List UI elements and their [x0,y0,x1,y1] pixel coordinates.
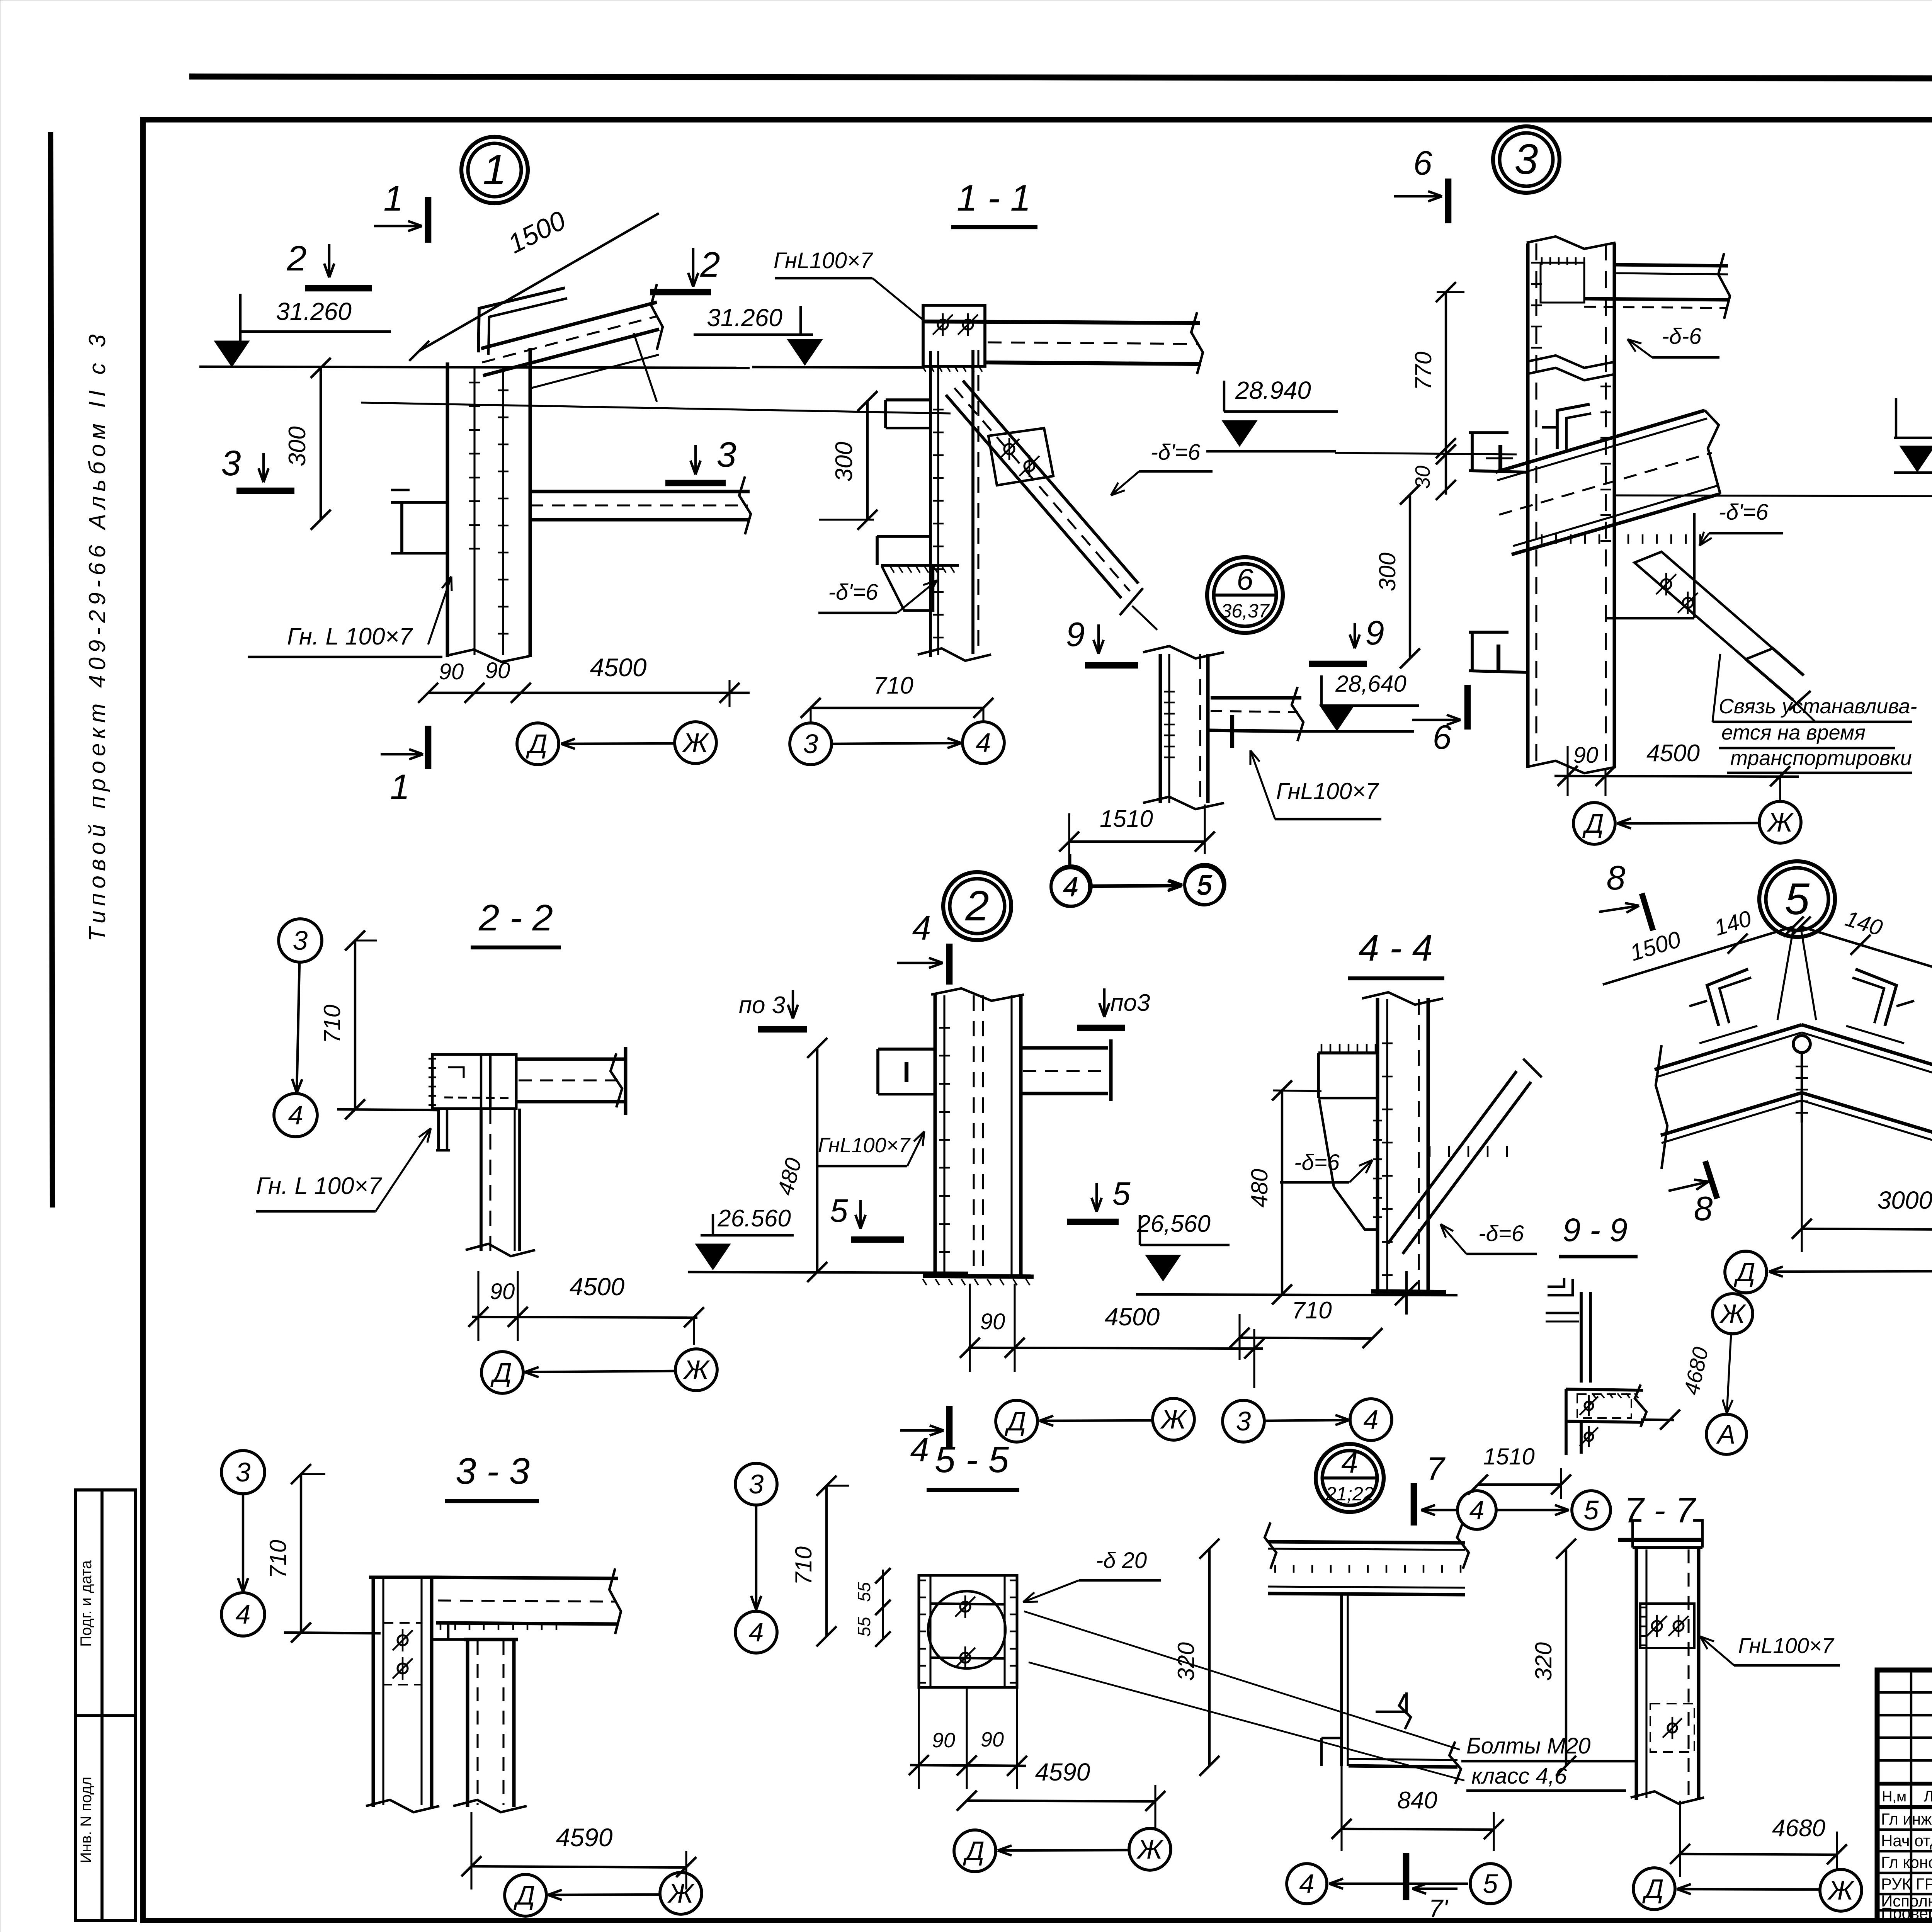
svg-text:Д: Д [1004,1406,1026,1436]
svg-text:9: 9 [1066,615,1085,653]
axis arrow bottom uzel 4 [1329,1883,1468,1885]
cross beam right uzel 1 [530,490,750,493]
svg-text:Д: Д [513,1880,535,1910]
clip right of web uzel 4 [1376,1692,1406,1712]
svg-text:4: 4 [749,1617,764,1647]
svg-text:Гн. L 100×7: Гн. L 100×7 [287,623,413,650]
column uzel 3 [1526,243,1530,768]
column uzel 2 [934,994,937,1276]
svg-text:Ж: Ж [1767,807,1794,837]
bracket left uzel 2 [878,1048,935,1051]
diagonal brace view 1-1 [946,395,1121,598]
svg-text:Ж: Ж [1719,1299,1747,1329]
svg-text:8: 8 [1607,859,1626,897]
svg-text:3: 3 [236,1457,251,1487]
corner bracket uzel 4 [1321,1738,1342,1766]
structure view 9-9 [1548,1278,1564,1287]
axis 5 above uzel 2 [1185,864,1225,905]
bottom dim 90 4500 uzel 2 [968,1348,1263,1349]
svg-text:4590: 4590 [1035,1758,1090,1786]
top beam view 1-1 [924,321,1200,323]
axis Ж uzel 2 [1153,1398,1194,1440]
axis arrow view 3-3 [548,1895,659,1895]
reference line view 3-3 [284,1633,381,1633]
node circle 3 [1493,126,1560,193]
svg-text:55: 55 [854,1582,874,1602]
svg-text:Проверил: Проверил [1881,1904,1932,1922]
svg-text:Типовой проект 409-29-: Типовой проект 409-29-66 Альбом II с 3 [84,330,110,941]
svg-text:по 3: по 3 [739,992,785,1019]
bracket left view 4-4 [1318,1051,1378,1054]
axis arrow uzel 5 [1769,1271,1932,1272]
svg-text:30: 30 [1411,466,1434,489]
svg-text:5: 5 [1584,1495,1599,1525]
dims 90 90 view 5-5 [910,1765,1026,1766]
axis arrow view 5-5 [755,1506,757,1610]
svg-text:31.260: 31.260 [276,298,352,325]
svg-text:300: 300 [831,442,857,481]
svg-text:Ж: Ж [1160,1404,1187,1434]
lower channel bracket left uzel 3 [1469,631,1509,634]
axis Д view 3-3 [505,1874,546,1916]
svg-text:21;22: 21;22 [1325,1483,1374,1505]
svg-text:1: 1 [483,146,506,194]
right column view 3-3 [466,1639,469,1807]
axis Ж view 3-3 [660,1872,702,1914]
svg-text:ГнL100×7: ГнL100×7 [818,1134,911,1157]
svg-text:Д: Д [1733,1257,1755,1287]
axis arrow uzel 1 [561,743,674,744]
axis Д view 5-5 [954,1830,996,1872]
level line uzel 1 [199,367,750,368]
svg-text:2 - 2: 2 - 2 [478,897,553,939]
column view 4-4 [1376,998,1379,1294]
dim 4590 view 3-3 [471,1866,687,1867]
svg-text:55: 55 [854,1617,874,1637]
dim 300 uzel 3 [1409,495,1411,658]
svg-text:4: 4 [236,1599,251,1629]
axis 4 mini detail [1051,868,1090,906]
svg-text:710: 710 [319,1005,345,1043]
bent plate top of column uzel 1 [478,288,565,352]
svg-text:Ж: Ж [667,1878,695,1908]
slanted dims uzel 5 right [1801,927,1932,985]
svg-text:Подг. и дата: Подг. и дата [78,1560,95,1646]
beam right uzel 2 [1021,1046,1108,1050]
axis 4 view 3-3 [221,1593,265,1636]
axis Ж view 7-7 [1820,1869,1862,1911]
svg-text:710: 710 [791,1546,816,1585]
axis arrow view 5-5 [998,1850,1128,1850]
dim 480 view 4-4 [1281,1090,1283,1294]
column bottom break uzel 1 [446,650,531,662]
svg-text:Ж: Ж [682,728,709,758]
svg-text:РУК ГР: РУК ГР [1881,1875,1932,1893]
top fittings view 7-7 [1633,1520,1641,1548]
svg-text:4: 4 [1299,1869,1315,1899]
svg-text:Н,м: Н,м [1882,1789,1906,1805]
svg-text:90: 90 [981,1728,1004,1751]
lower plate view 7-7 [1650,1704,1694,1752]
svg-text:Д: Д [1582,808,1604,838]
svg-text:9: 9 [1366,614,1384,652]
dim 1500 slanted [419,213,659,351]
top beam right uzel 3 [1614,265,1728,266]
svg-text:Гл инж пр: Гл инж пр [1881,1810,1932,1828]
gusset plate uzel 3 [1693,513,1696,618]
section mark 8 bottom uzel 5 [1705,1161,1717,1199]
axis 5 top uzel 4 [1572,1491,1611,1529]
node circle 6 / 36,37 [1207,557,1283,633]
column below view 2-2 [480,1109,483,1251]
svg-text:2: 2 [286,239,306,278]
node circle 5 [1759,861,1835,937]
svg-text:1: 1 [390,767,410,807]
mini detail 6 beam [1211,696,1301,700]
dims 55 55 view 5-5 [882,1570,884,1640]
section mark 6 bottom right of mini detail [1412,719,1461,721]
svg-text:4: 4 [976,728,991,758]
lower bracket view 1-1 [877,535,930,538]
svg-text:90: 90 [485,658,510,683]
svg-text:6: 6 [1236,562,1253,596]
svg-text:3: 3 [749,1469,764,1499]
axis 4 view 1-1 [963,722,1004,764]
beam under flange uzel 4 [1268,1587,1465,1588]
axis arrow 4-5 above uzel 2 [1092,885,1182,886]
bottom dim 710 view 4-4 [1240,1338,1372,1338]
section mark 1 top [425,197,432,243]
bottom dim 90 4500 uzel 3 [1554,776,1799,777]
axis arrow 3-4 view 1-1 [833,743,961,744]
section mark 1 bottom [425,726,432,769]
svg-text:480: 480 [1247,1169,1272,1207]
svg-text:3: 3 [803,729,818,759]
svg-text:8: 8 [1694,1189,1713,1228]
svg-text:4: 4 [1341,1445,1358,1479]
svg-text:Д: Д [526,729,547,759]
svg-text:840: 840 [1397,1787,1437,1814]
axis arrow 3 to 4 view 2-2 [297,963,299,1093]
svg-text:5: 5 [1112,1175,1131,1212]
svg-text:-δ=6: -δ=6 [1478,1221,1524,1246]
svg-text:90: 90 [439,659,464,684]
dim 320 left uzel 4 [1208,1549,1211,1766]
svg-text:транспортировки: транспортировки [1730,747,1912,770]
svg-text:7 - 7: 7 - 7 [1624,1491,1696,1530]
dim 710 view 3-3 [300,1474,302,1633]
axis Ж uzel 1 [675,722,716,764]
svg-text:ГнL100×7: ГнL100×7 [1738,1633,1834,1658]
svg-text:ГнL100×7: ГнL100×7 [1276,778,1380,804]
left stamp table [76,1490,135,1920]
svg-text:90: 90 [1573,743,1599,768]
bottom dim 90 4500 view 2-2 [472,1317,697,1318]
long thin line right uzel 3 [1614,495,1932,497]
svg-text:по3: по3 [1110,990,1150,1016]
left margin thick line [51,132,53,1207]
diagonal brace with bolts uzel 3 [1634,552,1773,659]
axis arrow 4-5 mini detail [1090,886,1182,887]
svg-text:4: 4 [1064,871,1079,901]
axis Ж uzel 3 [1759,801,1801,843]
axis 3 view 2-2 [279,919,322,962]
dim 300 view 1-1 [866,401,869,520]
svg-text:26.560: 26.560 [717,1205,791,1232]
axis 3 view 3-3 [221,1451,265,1494]
upper beam stub lines uzel 1 [361,403,951,413]
svg-text:4: 4 [1364,1405,1379,1435]
svg-text:5: 5 [1197,869,1213,900]
diagonal brace view 4-4 [1388,1071,1517,1243]
mini detail 6 column [1159,654,1162,803]
dim 710 axes 3-4 of view 1-1 [811,707,983,709]
svg-text:320: 320 [1531,1642,1556,1681]
svg-text:-δ'=6: -δ'=6 [1719,500,1769,525]
apex guide lines uzel 5 [1777,927,1794,1020]
axis Д uzel 3 [1573,803,1615,844]
svg-text:9 - 9: 9 - 9 [1563,1212,1628,1248]
svg-text:4: 4 [288,1100,303,1130]
svg-text:28,640: 28,640 [1335,671,1406,697]
svg-text:5: 5 [830,1192,848,1229]
axis Д uzel 2 [996,1400,1037,1442]
svg-text:класс 4,6: класс 4,6 [1471,1764,1567,1789]
svg-text:1 - 1: 1 - 1 [957,177,1031,219]
axis A view 9-9 [1706,1414,1747,1454]
axis Д uzel 5 [1725,1251,1767,1293]
dim 300 uzel 1 [320,368,322,520]
end plate with bolts view 1-1 [923,305,985,366]
left column view 3-3 [372,1577,375,1807]
svg-text:Связь устанавлива-: Связь устанавлива- [1719,695,1917,718]
svg-text:5: 5 [1483,1869,1498,1899]
svg-text:3: 3 [293,925,308,956]
channel bracket left of column uzel 1 [391,501,447,504]
svg-text:4: 4 [1469,1495,1485,1525]
svg-text:36,37: 36,37 [1221,600,1270,622]
axis Ж view 5-5 [1129,1828,1171,1870]
svg-text:300: 300 [284,426,311,466]
right clip fitting uzel 5 [1855,969,1896,1026]
axis 4 bottom uzel 4 [1287,1864,1327,1904]
axis arrow top uzel 4 [1497,1509,1569,1511]
dim 4590 view 5-5 [967,1801,1156,1801]
svg-text:7': 7' [1429,1894,1449,1923]
base line view 4-4 [1136,1294,1458,1295]
axis 4 view 4-4 [1350,1399,1392,1440]
svg-text:26,560: 26,560 [1137,1211,1211,1237]
column section box view 2-2 [432,1054,516,1109]
svg-text:3: 3 [716,435,736,474]
dim 710 view 2-2 [354,940,356,1109]
svg-text:4500: 4500 [590,653,647,682]
svg-text:-δ 20: -δ 20 [1096,1548,1147,1573]
svg-text:6: 6 [1433,718,1452,756]
axis arrow view 2-2 [525,1371,675,1372]
axis Д view 2-2 [481,1352,523,1393]
axis arrow view 4-4 [1264,1420,1349,1421]
dim 480 uzel 2 [816,1048,818,1272]
axis arrow view 7-7 [1677,1889,1819,1889]
svg-text:Ж: Ж [683,1355,710,1385]
base plate view 4-4 [1371,1291,1446,1292]
upper bracket view 1-1 [886,398,930,401]
svg-text:6: 6 [1413,144,1432,182]
axis 5 mini detail [1185,866,1223,905]
sheet top edge line [189,77,1932,79]
base plate uzel 2 [923,1276,1034,1277]
svg-text:2: 2 [965,882,989,930]
svg-text:1: 1 [383,179,403,218]
axis 5 bottom uzel 4 [1470,1864,1510,1904]
ridge bolt uzel 5 [1793,1036,1810,1053]
svg-text:3: 3 [221,444,241,483]
svg-text:1510: 1510 [1100,806,1153,832]
svg-text:4590: 4590 [556,1823,613,1852]
bracket below box view 2-2 [437,1109,440,1150]
svg-text:Гн. L 100×7: Гн. L 100×7 [256,1173,383,1199]
svg-text:-δ'=6: -δ'=6 [1151,440,1201,465]
svg-text:90: 90 [932,1729,955,1752]
svg-text:300: 300 [1374,553,1400,591]
diagonal roof beam uzel 3 [1495,410,1705,472]
svg-text:-δ'=6: -δ'=6 [828,580,878,605]
leader lines bolts M20 [1024,1611,1460,1750]
svg-text:4: 4 [912,909,931,947]
beam web uzel 4 [1340,1595,1343,1766]
svg-text:770: 770 [1410,352,1436,390]
svg-text:1510: 1510 [1483,1444,1534,1469]
axis Д uzel 1 [517,723,559,765]
slanted dims uzel 5 left [1603,927,1794,985]
svg-text:3: 3 [1236,1406,1251,1436]
beam bottom flange uzel 4 [1349,1759,1458,1760]
svg-text:ГнL100×7: ГнL100×7 [774,248,874,273]
svg-text:31.260: 31.260 [707,304,782,332]
title block outer frame [1877,1670,1932,1920]
left clip fitting uzel 5 [1707,969,1748,1026]
level line uzel 2 [688,1272,968,1273]
beam top flange uzel 4 [1268,1542,1465,1543]
level line left uzel 3 [1335,453,1517,454]
axis 3 view 1-1 [790,723,832,765]
diagonal beam uzel 1 [481,302,657,349]
reference line view 2-2 [337,1109,439,1110]
beam right view 2-2 [516,1058,624,1061]
left beam uzel 5 [1655,1025,1802,1070]
svg-text:А: А [1716,1419,1736,1449]
axis 3 view 5-5 [735,1463,777,1505]
svg-text:Ж: Ж [1827,1875,1855,1905]
axis 4 top uzel 4 [1458,1491,1496,1529]
svg-text:710: 710 [265,1540,291,1578]
svg-text:Болты М20: Болты М20 [1466,1733,1590,1759]
svg-text:Д: Д [1642,1874,1663,1904]
section mark 4 bottom uzel 2 [946,1406,953,1448]
axis arrow uzel 3 [1617,823,1759,823]
axis arrow 3 to 4 view 3-3 [242,1495,244,1592]
svg-text:ется на время: ется на время [1721,721,1866,744]
column view 1-1 [929,351,932,657]
svg-text:4680: 4680 [1772,1815,1825,1842]
dim 710 view 5-5 [825,1486,828,1636]
bolt plate view 7-7 [1640,1604,1694,1648]
axis 4 above uzel 2 [1051,866,1091,906]
box section view 5-5 [919,1575,1017,1687]
svg-text:5: 5 [1785,874,1810,924]
section mark 7' bottom uzel 4 [1403,1853,1410,1900]
svg-text:3: 3 [1514,136,1538,183]
node circle 4 / 21;22 [1316,1444,1384,1512]
bottom dim 90 90 4500 uzel 1 [428,692,750,694]
svg-text:Ж: Ж [1136,1834,1164,1864]
svg-text:2: 2 [700,245,720,284]
svg-text:Д: Д [490,1357,512,1388]
svg-text:4500: 4500 [570,1273,625,1301]
svg-text:7: 7 [1427,1451,1446,1487]
axis Ж view 9-9 [1713,1294,1753,1334]
dim 770 uzel 3 [1445,292,1447,448]
svg-text:Инв. N подл: Инв. N подл [78,1777,95,1863]
gusset view 4-4 [1319,1099,1378,1230]
axis arrow uzel 2 [1039,1420,1152,1421]
right beam uzel 5 [1802,1025,1932,1070]
svg-text:4500: 4500 [1646,740,1700,767]
title block revision grid [1877,1691,1932,1694]
svg-text:Нач отд: Нач отд [1881,1832,1932,1850]
svg-text:4: 4 [910,1430,929,1469]
axis 4 view 2-2 [274,1094,317,1137]
node circle 1 [461,137,528,203]
title block signature rows [1877,1828,1932,1831]
svg-text:3000: 3000 [1878,1186,1932,1214]
svg-text:90: 90 [980,1309,1005,1334]
column view 7-7 [1635,1548,1638,1800]
svg-text:710: 710 [1292,1297,1332,1324]
svg-text:3 - 3: 3 - 3 [456,1451,530,1492]
joint lines view 3-3 [432,1638,468,1641]
svg-text:5 - 5: 5 - 5 [935,1439,1009,1480]
axis 3 view 4-4 [1223,1400,1264,1442]
svg-text:Гл констр: Гл констр [1881,1853,1932,1871]
svg-text:-δ-6: -δ-6 [1662,324,1702,349]
bent plate on column uzel 3 [1557,404,1590,449]
beam view 3-3 [436,1577,618,1578]
svg-text:28.940: 28.940 [1235,376,1311,404]
axis 4 view 5-5 [735,1611,777,1653]
mini detail 6 weld bar [1230,715,1234,748]
svg-text:4500: 4500 [1105,1303,1160,1331]
svg-text:4 - 4: 4 - 4 [1359,927,1433,969]
svg-text:710: 710 [873,672,913,699]
upper channel bracket left uzel 3 [1469,431,1509,434]
svg-text:Лист: Лист [1924,1788,1932,1805]
bolt plate left column view 3-3 [383,1623,422,1685]
axis Д view 7-7 [1633,1868,1675,1910]
dim 320 right uzel 4 [1565,1549,1567,1766]
svg-text:90: 90 [490,1279,515,1304]
node circle 2 [943,872,1011,940]
axis Ж view 2-2 [675,1349,717,1391]
svg-text:320: 320 [1173,1642,1199,1681]
svg-text:-δ=6: -δ=6 [1294,1150,1340,1175]
gusset and base view 1-1 [881,564,959,567]
svg-text:Д: Д [963,1836,984,1866]
column uzel 1 [446,362,449,657]
